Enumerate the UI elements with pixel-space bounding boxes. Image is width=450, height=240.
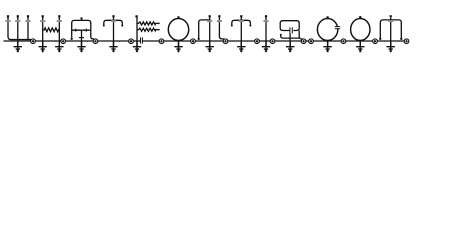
power pin P15 (letter o2, small) bbox=[359, 16, 361, 18]
node N13 bbox=[373, 39, 378, 44]
letter s upper loop with capacitor gap bbox=[280, 21, 299, 31]
ground G2 (h left) bbox=[39, 42, 47, 53]
ground G14 (m) bbox=[387, 42, 395, 53]
node N9 bbox=[270, 39, 275, 44]
power pin P10 (n mid) bbox=[207, 15, 212, 22]
ground G3 (h right) bbox=[55, 42, 63, 53]
capacitor C2 plates (letter s) bbox=[290, 27, 292, 33]
node N2 bbox=[61, 39, 66, 44]
power pin P11 (n right) bbox=[217, 15, 222, 22]
letter t1 stem wire bbox=[113, 17, 115, 47]
junction dot (letter m left foot) bbox=[379, 38, 381, 40]
letter I stem wire bbox=[265, 17, 267, 47]
letter W right stem wire bbox=[27, 17, 29, 40]
ground G1 (W) bbox=[14, 42, 22, 53]
letter a rounded top bbox=[72, 20, 91, 23]
node N3 bbox=[93, 39, 98, 44]
power pin P5 (h right) bbox=[57, 15, 62, 22]
capacitor C3 plates (letter c mouth) bbox=[335, 27, 340, 29]
junction dot (letter t2 right) bbox=[249, 25, 251, 27]
letter n right stem wire with corner to bus bbox=[219, 17, 225, 41]
letter c bottom stem wire bbox=[327, 40, 329, 46]
letter a center stem wire bbox=[81, 19, 83, 47]
junction dot (letter s hook) bbox=[280, 34, 282, 36]
junction dot (letter m right foot) bbox=[400, 38, 402, 40]
ground G13 (o2) bbox=[356, 42, 364, 53]
node N4 bbox=[129, 39, 134, 44]
node N12 bbox=[341, 39, 346, 44]
power pin P2 (W mid) bbox=[15, 15, 20, 22]
capacitor C1 gap in bus (letter F) bbox=[141, 37, 142, 45]
power pin P7 (t1) bbox=[111, 15, 116, 22]
ground G10 (I) bbox=[262, 42, 270, 53]
letter c circle bbox=[317, 19, 337, 41]
capacitor C3 gap in letter c circle bbox=[334, 27, 341, 28]
letter a mid wire bbox=[72, 29, 91, 31]
junction dot (letter t1 right) bbox=[121, 25, 123, 27]
letter t2 crossbar bbox=[232, 20, 251, 25]
junction dot (letter a left foot) bbox=[71, 38, 73, 40]
power pin P14 (letter c, small) bbox=[327, 16, 329, 18]
resistor R1 (letter h crossbar) bbox=[43, 28, 60, 32]
node N5 bbox=[159, 39, 164, 44]
letter n left stem with corner bbox=[199, 20, 211, 38]
letter o2 bottom stem wire bbox=[359, 40, 361, 46]
node N11 bbox=[309, 39, 314, 44]
letter o2 circle bbox=[351, 19, 370, 41]
capacitor plate (letter a) bbox=[79, 37, 84, 39]
wire baseline bus bbox=[4, 40, 405, 42]
letter t1 crossbar bbox=[104, 20, 123, 25]
letter a tick junction right bbox=[85, 29, 87, 32]
resistor R3 (letter F mid bar) bbox=[137, 28, 158, 31]
letter n middle stem wire bbox=[209, 17, 211, 47]
letter o1 bottom stem wire bbox=[178, 40, 180, 46]
power pin P6 (letter a, small) bbox=[81, 17, 83, 19]
junction dot (resistor R2 end) bbox=[158, 23, 160, 25]
power pin P12 (t2) bbox=[239, 15, 244, 22]
junction dot (letter t2 left) bbox=[231, 25, 233, 27]
ground G11 (s) bbox=[286, 42, 294, 53]
node N14 bbox=[404, 39, 409, 44]
junction dot (letter n left foot) bbox=[198, 38, 200, 40]
power pin P9 (letter o1, small) bbox=[177, 16, 179, 18]
letter F stem wire bbox=[136, 15, 138, 46]
power pin P13 (I) bbox=[263, 15, 268, 22]
junction dot (letter t1 left) bbox=[103, 25, 105, 27]
ground G12 (c) bbox=[323, 42, 331, 53]
letter m top with corners bbox=[380, 20, 401, 38]
node N6 bbox=[191, 39, 196, 44]
letter m middle stem wire bbox=[390, 18, 392, 47]
letter W : U-trough bbox=[8, 17, 33, 41]
ground G6 (F) bbox=[133, 42, 141, 53]
power pin P8 (letter F, small) bbox=[135, 15, 137, 17]
power pin P4 (h left) bbox=[40, 15, 45, 22]
resistor R2 (letter F top bar) bbox=[137, 22, 158, 25]
node N7 bbox=[223, 39, 228, 44]
power pin P16 (letter m) bbox=[388, 15, 393, 22]
node N1 bbox=[31, 39, 36, 44]
letter W middle stem wire bbox=[17, 17, 19, 47]
letter a right side wire bbox=[91, 23, 95, 41]
junction dot (resistor R3 end) bbox=[158, 29, 160, 31]
letter h left stem wire bbox=[42, 17, 44, 47]
capacitor C1 plates bbox=[141, 37, 143, 43]
ground G7 (o1) bbox=[174, 42, 182, 53]
ground G8 (n) bbox=[206, 42, 214, 53]
letter a left side wire bbox=[71, 23, 73, 38]
letter a tick junction left bbox=[75, 29, 77, 32]
node N10 bbox=[301, 39, 306, 44]
power pin P3 (W right) bbox=[25, 15, 30, 22]
ground G4 (a) bbox=[77, 42, 85, 53]
power pin P1 (W left) bbox=[5, 15, 10, 22]
ground G5 (t1) bbox=[109, 42, 117, 53]
ground G9 (t2) bbox=[237, 42, 245, 53]
letter t2 stem wire bbox=[240, 17, 242, 47]
node N8 bbox=[255, 39, 260, 44]
letter o1 circle bbox=[168, 19, 188, 41]
letter s stem wire bbox=[289, 34, 291, 47]
letter h right stem wire bbox=[59, 17, 61, 41]
letter s lower hook bbox=[281, 31, 303, 41]
